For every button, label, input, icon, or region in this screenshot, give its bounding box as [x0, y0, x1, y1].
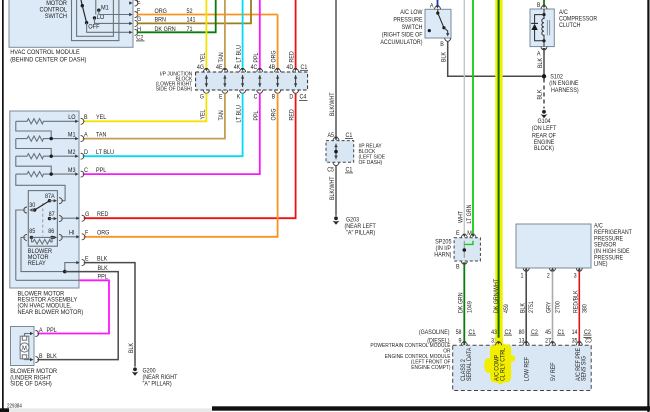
svg-text:2751: 2751 [528, 301, 535, 313]
svg-text:2: 2 [547, 272, 550, 279]
svg-text:RED/BLK: RED/BLK [572, 290, 579, 313]
svg-text:14: 14 [572, 329, 578, 336]
highlighter band on DK GRN/WHT wire [495, 0, 502, 345]
svg-text:SERIAL DATA: SERIAL DATA [466, 347, 473, 381]
svg-text:3: 3 [574, 272, 577, 279]
wire TAN to resistor pin A [83, 93, 225, 138]
svg-text:ENGINE COMPT): ENGINE COMPT) [411, 365, 450, 371]
pin H [129, 26, 141, 36]
svg-text:F: F [85, 230, 88, 237]
svg-text:LT BLU: LT BLU [236, 45, 243, 63]
svg-text:30: 30 [29, 202, 35, 209]
svg-text:BLK: BLK [98, 265, 109, 272]
HVAC module label [10, 49, 86, 63]
bottom black bar [212, 406, 650, 410]
svg-text:BRN: BRN [155, 17, 167, 24]
pressure switch pin B [440, 38, 451, 48]
contact LO [93, 14, 105, 21]
pin G [129, 16, 141, 26]
svg-text:G104: G104 [537, 118, 550, 125]
SP205 label [434, 238, 452, 258]
svg-text:YEL: YEL [96, 114, 107, 121]
WHT label [457, 211, 464, 223]
svg-text:BLK: BLK [537, 57, 544, 68]
svg-text:86: 86 [48, 228, 54, 235]
svg-text:GRY: GRY [546, 301, 553, 313]
svg-text:5V REF: 5V REF [550, 362, 557, 381]
svg-text:B: B [456, 263, 460, 270]
svg-text:RED: RED [97, 211, 109, 218]
relay contact 87A [45, 193, 55, 203]
relay pin 87 [50, 216, 63, 222]
svg-text:C: C [84, 167, 88, 174]
chain link M1 to M2 [16, 139, 53, 158]
svg-text:BLK: BLK [128, 342, 135, 353]
wire 86 HI to pin F [61, 230, 77, 237]
PCM box [453, 345, 592, 390]
junction block pass-through pins [203, 68, 298, 93]
motor control switch enclosure inner [77, 0, 114, 36]
ground G104 [541, 110, 548, 118]
svg-text:A5: A5 [328, 132, 335, 139]
svg-text:POWERTRAIN CONTROL MODULE: POWERTRAIN CONTROL MODULE [370, 343, 450, 349]
chain link M3 to relay 87A [16, 174, 65, 201]
SP205 pin E [456, 230, 467, 238]
sensor pin 1 [521, 267, 530, 279]
svg-text:OFF: OFF [88, 23, 99, 30]
AC compressor clutch box [530, 9, 554, 47]
svg-text:LOW REF: LOW REF [523, 357, 530, 381]
svg-text:BLK: BLK [519, 302, 526, 313]
resistor R-LO row [16, 119, 76, 124]
outer pin F [76, 230, 109, 240]
blower motor resistor assembly box [10, 111, 79, 288]
label OFF [88, 23, 99, 30]
svg-text:M: M [22, 345, 27, 352]
wire RED to relay pin G [84, 93, 296, 218]
svg-text:SWITCH: SWITCH [402, 24, 423, 31]
HVAC control module box [9, 0, 133, 47]
left page border [2, 0, 4, 410]
resistor R-M1 row [16, 136, 76, 141]
svg-text:CLUTCH: CLUTCH [559, 22, 581, 29]
PCM label [370, 343, 450, 371]
svg-text:BLK: BLK [97, 256, 108, 263]
outer pin G [76, 211, 108, 221]
relay pin 86 [52, 234, 62, 240]
svg-text:ORG: ORG [271, 50, 278, 62]
svg-text:B: B [272, 94, 276, 101]
svg-text:YEL: YEL [199, 109, 206, 119]
sensor pin 3 [574, 267, 583, 279]
svg-text:ORG: ORG [155, 8, 167, 15]
svg-text:RELAY: RELAY [28, 260, 46, 267]
svg-text:71: 71 [187, 26, 193, 33]
wire 87 to pin G [61, 217, 77, 219]
wire BLK clutch to S102 [537, 50, 544, 77]
wire BLK/WHT from top [335, 0, 337, 140]
PCM signal 5V REF [550, 362, 557, 381]
ground G200 [132, 367, 178, 387]
wire BLK S102 to G104 dashed [537, 79, 545, 109]
svg-text:C1: C1 [301, 64, 308, 71]
motor control switch enclosure outer [72, 0, 119, 41]
svg-text:SIDE OF DASH): SIDE OF DASH) [156, 87, 193, 93]
relay arm 30 to 87A [33, 201, 50, 212]
svg-text:PPL: PPL [253, 52, 260, 62]
relay pin 85 [24, 234, 33, 240]
PCM signal LOW REF [523, 357, 530, 381]
wire DK GRN 1049 to PCM [463, 264, 465, 345]
junction block bottom pin labels G E K C B D C4 [200, 94, 294, 101]
bottom grey strip [0, 408, 212, 412]
highlighter blob over A/C COMP CL RLY CTRL [484, 338, 515, 385]
svg-text:WHT: WHT [457, 211, 464, 223]
wire BLK 2751 [519, 271, 535, 345]
svg-text:52: 52 [187, 8, 193, 15]
I/P relay block pass-through [333, 137, 339, 166]
wire RED vertical from top [295, 0, 297, 68]
svg-text:2700: 2700 [555, 301, 562, 313]
svg-text:BLK/WHT: BLK/WHT [329, 92, 336, 116]
wire GRY 2700 [546, 271, 562, 345]
relay actuator dashed line [42, 203, 44, 236]
switch arm to OFF contact [82, 6, 88, 25]
wire LT BLU to resistor pin D [83, 93, 243, 156]
svg-text:27: 27 [545, 338, 551, 345]
I/P relay block label [359, 143, 386, 166]
motor pin B [30, 353, 57, 363]
svg-text:TAN: TAN [218, 110, 225, 121]
PCM pin cups [461, 341, 582, 345]
svg-text:BLK/WHT: BLK/WHT [329, 176, 336, 200]
svg-text:A: A [84, 132, 88, 139]
svg-text:LT BLU: LT BLU [236, 105, 243, 123]
wire YEL to resistor pin B [83, 93, 207, 121]
resistor pin D [75, 149, 114, 159]
I/P relay block pin A5 C1 [328, 132, 354, 139]
clutch pin B stub [537, 0, 547, 9]
svg-text:CL RLY CTRL: CL RLY CTRL [499, 347, 506, 381]
svg-text:D: D [289, 94, 293, 101]
wire TAN vertical from top [224, 0, 226, 68]
svg-text:B: B [537, 2, 541, 9]
pin E internal wire [65, 263, 77, 272]
svg-text:B: B [39, 353, 43, 360]
wire 85 to BLK run [21, 237, 63, 271]
resistor R-M3 row [16, 172, 76, 177]
svg-text:SENS SIG: SENS SIG [581, 356, 588, 381]
relay coil 85-86 [29, 228, 54, 244]
wire 30 to PPL run [16, 210, 26, 280]
svg-text:1: 1 [521, 272, 524, 279]
splice S102 [542, 74, 579, 94]
svg-text:M2: M2 [68, 149, 76, 156]
wire RED/BLK 380 [572, 271, 588, 345]
PCM signal A/C COMP CL RLY CTRL [494, 347, 507, 381]
svg-text:380: 380 [581, 304, 588, 313]
svg-text:4C: 4C [251, 64, 258, 71]
svg-text:ORG: ORG [97, 230, 109, 237]
diagram number 229384 [7, 404, 22, 410]
svg-text:PPL: PPL [98, 274, 109, 281]
svg-text:ORG: ORG [271, 108, 278, 120]
svg-text:(ON LEFT: (ON LEFT [532, 125, 557, 132]
svg-text:PPL: PPL [47, 327, 58, 334]
wire M1 to pin F [99, 10, 130, 14]
svg-text:LINE): LINE) [594, 261, 608, 268]
resistor pin A [75, 132, 107, 142]
pressure switch pin A stub [430, 0, 441, 9]
svg-text:C: C [254, 94, 258, 101]
junction dot E/85 net [63, 270, 67, 274]
svg-text:4G: 4G [197, 64, 204, 71]
right page border [647, 0, 649, 412]
svg-text:C2: C2 [136, 35, 143, 42]
svg-text:TAN: TAN [96, 132, 107, 139]
svg-text:M: M [467, 230, 472, 237]
AC refrigerant pressure sensor box [516, 224, 591, 268]
PCM signal CLASS 2 SERIAL DATA [460, 347, 473, 381]
chain link LO to M1 [16, 121, 53, 140]
splice SP205 box [454, 238, 480, 261]
wire LO to pin G [95, 18, 130, 23]
svg-text:LO: LO [68, 114, 75, 121]
svg-text:HI: HI [69, 230, 75, 237]
labels LO M1 M2 M3 [68, 114, 76, 174]
wire PPL vertical from top [259, 0, 261, 68]
relay contact 87 [48, 211, 55, 220]
svg-text:45: 45 [545, 329, 551, 336]
clutch coil and diode [531, 9, 549, 47]
wire DK GRN 71 [137, 0, 216, 33]
sensor pin 2 [547, 267, 556, 279]
svg-text:PPL: PPL [253, 110, 260, 120]
svg-text:80: 80 [519, 329, 525, 336]
svg-text:SIDE OF DASH): SIDE OF DASH) [10, 381, 52, 388]
motor M symbol [20, 336, 29, 359]
svg-text:RED: RED [289, 51, 296, 63]
junction block top pin labels 4G 4E 4K 4C 4B 4D C1 [197, 64, 294, 71]
pressure switch contacts [428, 9, 450, 36]
wire LT BLU vertical from top [242, 0, 244, 68]
wire YEL vertical from top [205, 0, 207, 68]
wire BLK switch B to S102 [448, 41, 542, 76]
resistor R-M2 row [16, 154, 76, 159]
svg-text:BLK: BLK [47, 353, 58, 360]
blower motor box [11, 327, 35, 366]
ground G203 [333, 216, 376, 236]
svg-text:4D: 4D [286, 64, 293, 71]
svg-text:B: B [440, 41, 444, 48]
svg-text:G: G [200, 94, 204, 101]
svg-text:43: 43 [491, 329, 497, 336]
wire BLK relay to motor B [37, 265, 118, 360]
I/P junction block box [196, 72, 308, 90]
svg-text:"A" PILLAR): "A" PILLAR) [346, 229, 375, 236]
wire OFF to pin H [87, 23, 130, 33]
svg-text:87A: 87A [45, 193, 55, 200]
switch arm pivot [81, 0, 84, 7]
svg-text:87: 87 [49, 211, 55, 218]
svg-text:TAN: TAN [218, 52, 225, 63]
wire ORG to relay pin F [84, 93, 278, 237]
motor pin B internal wire [25, 358, 32, 361]
svg-text:G: G [137, 16, 141, 23]
svg-text:SWITCH: SWITCH [45, 13, 67, 20]
resistor assembly label [18, 290, 84, 316]
svg-text:PPL: PPL [96, 167, 107, 174]
I/P relay block box [326, 141, 354, 163]
BLK label on switch drop [441, 51, 448, 62]
svg-text:E: E [456, 230, 460, 237]
wire WHT from top [463, 0, 465, 237]
LT GRN label [466, 204, 473, 223]
relay pin 87A to chain [50, 198, 63, 204]
chain link M2 to M3 [16, 156, 53, 176]
svg-text:A: A [537, 51, 541, 58]
svg-text:E: E [137, 0, 141, 6]
svg-text:A: A [430, 2, 434, 9]
svg-text:F: F [137, 7, 140, 14]
pressure switch label [380, 9, 422, 46]
DK GRN/WHT 459 labels [493, 279, 510, 313]
wire LT GRN from top [472, 0, 474, 237]
svg-text:BLK: BLK [537, 89, 544, 100]
sensor label [594, 222, 632, 267]
blower motor relay label [28, 248, 52, 267]
motor pin A internal wire [25, 334, 32, 337]
BLK label on G200 drop [128, 342, 135, 353]
svg-text:ACCUMULATOR): ACCUMULATOR) [380, 39, 422, 46]
I/P relay block pin C5 C1 [327, 167, 353, 174]
svg-text:M3: M3 [68, 167, 76, 174]
svg-text:OF DASH): OF DASH) [359, 160, 383, 166]
relay pin 30 [24, 202, 36, 213]
svg-text:LT BLU: LT BLU [96, 149, 114, 156]
switch inner partition line [95, 0, 97, 15]
clutch pin A [537, 47, 547, 58]
svg-text:LT GRN: LT GRN [466, 204, 473, 223]
wire BRN 141 [137, 0, 251, 24]
svg-text:NEAR BLOWER MOTOR): NEAR BLOWER MOTOR) [18, 309, 84, 316]
svg-text:G: G [85, 211, 89, 218]
wire ORG vertical [277, 15, 279, 69]
svg-text:B: B [84, 114, 88, 121]
AC low pressure switch box [425, 9, 451, 38]
PCM pin row diesel [427, 338, 578, 345]
pin E [129, 0, 141, 6]
svg-text:58: 58 [456, 329, 462, 336]
svg-text:(RIGHT SIDE OF: (RIGHT SIDE OF [382, 31, 423, 38]
svg-text:C2: C2 [585, 336, 592, 343]
wire DK GRN/WHT 459 [498, 0, 500, 345]
svg-text:(GASOLINE): (GASOLINE) [419, 329, 450, 336]
clutch label [559, 9, 598, 29]
svg-text:BLK: BLK [441, 51, 448, 62]
svg-text:HARNESS): HARNESS) [551, 87, 579, 94]
svg-text:DK GRN/WHT: DK GRN/WHT [493, 279, 500, 313]
svg-text:E: E [85, 256, 89, 263]
blower motor label [10, 368, 57, 388]
svg-text:141: 141 [187, 17, 196, 24]
svg-text:BLOCK): BLOCK) [534, 145, 554, 152]
SP205 internal wires [463, 241, 474, 258]
DK GRN 1049 labels [457, 292, 473, 313]
resistor pin B [75, 114, 106, 124]
svg-text:PRESSURE: PRESSURE [393, 16, 422, 23]
svg-text:M1: M1 [101, 4, 109, 11]
I/P junction block label [156, 71, 193, 92]
svg-text:A: A [39, 327, 43, 334]
svg-text:DK GRN: DK GRN [155, 26, 176, 33]
wire E BLK to G200 drop [84, 263, 135, 367]
blower motor relay box [28, 191, 57, 247]
outer pin E [76, 256, 108, 266]
svg-text:YEL: YEL [199, 52, 206, 62]
wire PPL relay 30 to motor A [16, 274, 109, 334]
wire BLK/WHT to G203 [335, 165, 337, 215]
PCM pin row gasoline [419, 329, 591, 336]
connector C2 label [136, 35, 145, 42]
svg-text:(BEHIND CENTER OF DASH): (BEHIND CENTER OF DASH) [10, 57, 86, 64]
rotated wire labels below junction block [199, 105, 295, 123]
svg-text:DK GRN: DK GRN [457, 292, 464, 313]
svg-text:E: E [219, 94, 223, 101]
wire PPL to resistor pin C [83, 93, 260, 174]
svg-text:4B: 4B [269, 64, 276, 71]
svg-text:M1: M1 [68, 132, 76, 139]
svg-text:A/C LOW: A/C LOW [400, 9, 422, 16]
BLK/WHT label upper [329, 92, 336, 116]
wire ORG 52 [137, 8, 278, 15]
pin F [129, 7, 140, 17]
BLK/WHT label lower [329, 176, 336, 200]
resistor pin C [75, 167, 106, 177]
SP205 pin M [467, 230, 476, 238]
svg-text:4E: 4E [216, 64, 223, 71]
contact M1 [97, 4, 109, 12]
svg-text:1049: 1049 [466, 301, 473, 313]
svg-text:RED: RED [289, 109, 296, 121]
rotated wire labels above junction block [199, 45, 295, 63]
svg-text:C5: C5 [327, 167, 334, 174]
svg-text:D: D [84, 149, 88, 156]
svg-text:85: 85 [29, 228, 35, 235]
svg-text:HARN): HARN) [434, 251, 451, 258]
C-ref underlines [468, 334, 592, 336]
PCM signal A/C REF PRE SENS SIG [575, 348, 588, 381]
SP205 pin B [456, 261, 467, 270]
svg-text:"A" PILLAR): "A" PILLAR) [143, 381, 172, 388]
motor pin A [30, 327, 57, 337]
motor control switch label [40, 0, 68, 20]
svg-text:C4: C4 [300, 94, 307, 101]
svg-text:459: 459 [503, 304, 510, 313]
svg-text:HVAC CONTROL MODULE: HVAC CONTROL MODULE [10, 49, 80, 56]
